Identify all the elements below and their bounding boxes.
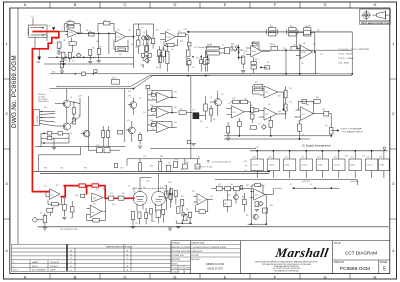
svg-text:SYSTEM: SYSTEM: [191, 255, 199, 257]
vertical feed to tube row: [190, 76, 192, 159]
resistor on IC2b output: [178, 33, 185, 37]
svg-text:220k: 220k: [168, 182, 172, 184]
svg-text:2: 2: [58, 85, 59, 87]
cathode resistor network: [131, 211, 134, 219]
svg-text:100k: 100k: [146, 180, 150, 182]
svg-text:FOOTSW: FOOTSW: [37, 115, 39, 123]
transistor Q8: [253, 214, 258, 219]
IC9 psu box: [379, 151, 390, 178]
resistor pair mid: [158, 50, 161, 57]
svg-text:C32: C32: [192, 110, 195, 112]
svg-text:47k: 47k: [127, 120, 130, 122]
svg-text:C28: C28: [244, 99, 247, 101]
junction dots mid cluster: [250, 111, 251, 112]
input jack J1: [28, 25, 47, 37]
mid coupling parts: [62, 204, 66, 210]
IC8 feedback: [252, 185, 263, 195]
svg-text:IC2: IC2: [117, 30, 120, 32]
svg-text:R69: R69: [84, 168, 87, 170]
capsule row2 x291: [291, 46, 297, 50]
svg-text:1: 1: [50, 91, 51, 93]
resistor column near Q5: [209, 109, 212, 115]
tube internal electrodes: [136, 173, 164, 199]
op-amp IC5c: [156, 122, 168, 132]
svg-text:C36: C36: [186, 162, 189, 164]
Q1 collector resistor: [72, 108, 75, 114]
svg-text:IC5: IC5: [152, 114, 155, 116]
svg-text:IC6: IC6: [367, 157, 370, 159]
svg-text:TITLE: TITLE: [334, 242, 341, 245]
node bus at 133.5: [133, 24, 135, 68]
svg-text:R15: R15: [180, 41, 183, 43]
svg-text:R74: R74: [110, 193, 113, 195]
FX send/return boxes: [206, 46, 219, 50]
grid numbers left 1-4: [5, 41, 8, 253]
OUTPUT TO POWER AMP arrow text: [336, 129, 339, 131]
svg-text:2: 2: [5, 111, 8, 116]
svg-text:C30: C30: [232, 98, 235, 100]
svg-text:10k: 10k: [250, 186, 253, 188]
IC6a output drop: [278, 92, 284, 110]
svg-text:=4558TYPE: =4558TYPE: [301, 181, 310, 183]
svg-text:+17V: +17V: [127, 95, 132, 97]
svg-text:ISSUE: ISSUE: [380, 261, 388, 264]
svg-text:ECO: ECO: [13, 270, 18, 272]
value labels top-left: [55, 20, 99, 62]
svg-text:R38: R38: [305, 26, 308, 28]
transistor Q7: [234, 195, 239, 200]
resistor R24: [242, 56, 245, 64]
svg-text:IC Supply Arrangement: IC Supply Arrangement: [302, 144, 331, 148]
notes text small: [38, 93, 49, 103]
svg-text:G: G: [323, 275, 326, 280]
svg-text:R85: R85: [270, 205, 273, 207]
feedback capacitor: [67, 25, 74, 28]
wire y135.8 to left: [224, 135, 331, 137]
svg-text:10u: 10u: [156, 67, 159, 69]
svg-text:IC7: IC7: [350, 157, 353, 159]
svg-text:470p: 470p: [68, 20, 72, 22]
resistor network left: [240, 185, 243, 189]
svg-text:IC4: IC4: [233, 112, 236, 114]
scattered value labels: [44, 26, 320, 225]
svg-text:OVERALL SIZE: OVERALL SIZE: [172, 254, 185, 257]
red stair down: [32, 32, 58, 49]
svg-text:C31: C31: [289, 102, 292, 104]
IC2 psu box: [283, 150, 295, 178]
IC3a feedback caps: [252, 42, 259, 51]
svg-text:R56: R56: [278, 111, 281, 113]
svg-text:1M: 1M: [192, 67, 195, 69]
transistor Q6: [83, 130, 90, 137]
svg-text:C: C: [124, 275, 127, 280]
svg-text:IC5: IC5: [334, 157, 337, 159]
svg-text:4558: 4558: [318, 165, 323, 167]
svg-text:+17V: +17V: [255, 147, 260, 149]
svg-text:R82: R82: [246, 185, 249, 187]
svg-text:DRAWING DATA: DRAWING DATA: [191, 242, 205, 245]
svg-text:IC3b: IC3b: [302, 52, 306, 54]
grid numbers right 1-4: [392, 41, 395, 253]
svg-text:R90: R90: [345, 156, 348, 158]
svg-text:IC2b: IC2b: [167, 37, 171, 39]
svg-text:470k: 470k: [66, 26, 70, 28]
svg-text:IC6: IC6: [198, 200, 201, 202]
wire y146.75: [35, 146, 126, 148]
svg-text:5: 5: [383, 266, 386, 272]
svg-text:H: H: [374, 275, 377, 280]
svg-text:10k: 10k: [200, 121, 203, 123]
transistor Q4 left: [128, 127, 135, 134]
wires: [248, 188, 274, 224]
svg-text:0V: 0V: [290, 184, 293, 186]
svg-text:G: G: [323, 2, 326, 7]
svg-text:TOLERANCE UNLESS OTHERWISE STA: TOLERANCE UNLESS OTHERWISE STATED: [191, 246, 227, 249]
junction dots on bus: [133, 88, 134, 89]
svg-text:1M: 1M: [65, 60, 68, 62]
resistor row: [216, 186, 222, 190]
driver op-amp IC6: [197, 194, 207, 206]
input marker arrow: [52, 27, 55, 30]
IC6a feedback capsules: [254, 84, 263, 87]
svg-text:10u: 10u: [243, 53, 246, 55]
svg-text:IC6: IC6: [265, 92, 268, 94]
op-amp IC6a: [264, 86, 278, 98]
svg-text:3: 3: [5, 181, 8, 186]
svg-text:PH/CL: PH/CL: [32, 266, 39, 268]
IC supply decoupling units: [252, 157, 382, 159]
svg-text:From STANDBY SWITCH: From STANDBY SWITCH: [342, 130, 363, 133]
svg-text:D: D: [174, 2, 177, 7]
svg-text:FINISH: FINISH: [172, 263, 178, 265]
svg-text:C8: C8: [143, 32, 145, 34]
svg-text:R12: R12: [156, 30, 159, 32]
IC7 feedback resistor: [298, 101, 313, 113]
thermal note: [207, 161, 210, 162]
capsule left of IC4: [81, 194, 85, 197]
tube V1b envelope: [152, 191, 166, 205]
op-amp IC4c: [231, 106, 244, 118]
bias parts below IC3a: [251, 61, 256, 64]
caps between: [250, 107, 254, 112]
svg-text:C1: C1: [61, 29, 63, 31]
svg-text:10k: 10k: [180, 109, 183, 111]
svg-text:IC3: IC3: [318, 157, 321, 159]
svg-text:R75: R75: [122, 193, 125, 195]
right end of top wire drops: [318, 32, 352, 74]
svg-text:C18: C18: [244, 51, 247, 53]
resistor stack right of IC2a: [137, 30, 140, 36]
svg-text:R65: R65: [175, 159, 178, 161]
svg-text:C15: C15: [205, 53, 208, 55]
multicap block (dark): [193, 112, 200, 119]
svg-text:1M: 1M: [63, 40, 66, 42]
feedback resistor: [67, 22, 74, 25]
svg-text:R44: R44: [149, 90, 152, 92]
svg-text:4k7: 4k7: [320, 54, 323, 56]
bottom rail wire: [38, 226, 389, 228]
transistor Q5: [214, 99, 221, 106]
svg-text:DATE: DATE: [185, 267, 191, 270]
svg-text:R31: R31: [252, 42, 255, 44]
small box x94: [94, 70, 97, 73]
IC8 output parts: [255, 202, 259, 207]
svg-text:TL072: TL072: [301, 165, 308, 167]
svg-text:R27: R27: [255, 59, 258, 61]
capsules x201 x207: [200, 60, 203, 64]
red feedback resistor overlay: [92, 184, 98, 187]
resistor horizontal: [265, 66, 270, 69]
input bus: [147, 86, 149, 132]
svg-text:10k: 10k: [57, 50, 60, 52]
svg-text:22k: 22k: [289, 88, 292, 90]
svg-text:1M: 1M: [52, 207, 55, 209]
coupling resistor R41 (over red): [118, 196, 124, 200]
svg-text:10k: 10k: [89, 31, 92, 33]
svg-text:R7: R7: [129, 30, 131, 32]
bus end pickup circle: [383, 147, 386, 150]
svg-text:PC8689.OGM: PC8689.OGM: [340, 266, 370, 272]
svg-text:TL072: TL072: [269, 165, 276, 167]
resistor R4 on IC1a output: [88, 33, 94, 36]
svg-text:IC8: IC8: [255, 195, 258, 197]
svg-text:IC5: IC5: [152, 129, 155, 131]
svg-text:4k7: 4k7: [62, 60, 65, 62]
svg-text:IC1: IC1: [301, 157, 304, 159]
svg-text:switchable: switchable: [274, 187, 282, 190]
svg-text:4558: 4558: [350, 165, 355, 167]
svg-text:A: A: [24, 2, 27, 7]
svg-text:4558: 4558: [285, 165, 290, 167]
mid cluster lower parts: [238, 121, 242, 126]
svg-text:680R: 680R: [63, 198, 68, 200]
IC7 upper capsule: [302, 99, 307, 103]
svg-text:10k: 10k: [325, 125, 328, 127]
svg-text:R36: R36: [290, 26, 293, 28]
transistor Q2: [63, 123, 70, 130]
svg-text:4n7: 4n7: [258, 124, 261, 126]
svg-text:AW: AW: [37, 61, 42, 64]
svg-text:B: B: [74, 275, 77, 280]
supply rail labels: [243, 161, 248, 173]
svg-text:DIMENSIONS: DIMENSIONS: [191, 251, 203, 253]
svg-text:C38: C38: [60, 168, 63, 170]
svg-text:4k7: 4k7: [267, 62, 270, 64]
svg-text:11/06/97: 11/06/97: [172, 271, 181, 273]
red op-amp output riser: [60, 186, 105, 197]
svg-text:1n5: 1n5: [180, 169, 183, 171]
svg-text:1k5: 1k5: [135, 223, 138, 225]
svg-text:G1: G1: [40, 213, 42, 215]
svg-text:DRY CONTROLS PCB: DRY CONTROLS PCB: [60, 229, 78, 231]
svg-text:Marshall: Marshall: [273, 245, 329, 260]
capsule pair row on top wire x268: [267, 28, 278, 36]
svg-text:R70: R70: [56, 185, 59, 187]
svg-text:C12: C12: [188, 48, 191, 50]
capsule R at 119: [117, 130, 122, 134]
IC1b feedback: [48, 197, 62, 204]
svg-text:IC6: IC6: [268, 104, 271, 106]
svg-text:Q5: Q5: [210, 97, 212, 99]
svg-text:C4: C4: [79, 25, 81, 27]
svg-text:VK/30.07.97Z: VK/30.07.97Z: [207, 267, 223, 271]
svg-text:R51: R51: [250, 105, 253, 107]
svg-text:C21: C21: [273, 45, 276, 47]
op-amp IC3b top right: [300, 45, 312, 59]
titleblock col1 data rows: [171, 245, 191, 274]
svg-text:1u: 1u: [302, 134, 304, 136]
svg-text:F: F: [274, 2, 277, 7]
svg-text:IC3: IC3: [313, 43, 316, 45]
svg-text:MATERIAL: MATERIAL: [172, 258, 180, 261]
svg-text:22k: 22k: [139, 98, 142, 100]
svg-text:R45: R45: [174, 92, 177, 94]
svg-text:GENERAL: GENERAL: [172, 242, 180, 245]
svg-text:Q1: Q1: [70, 97, 72, 99]
capsule pair row x303.6: [304, 28, 311, 36]
svg-text:DESIGNED AND ENGINEERED IN GRE: DESIGNED AND ENGINEERED IN GREAT BRITAIN…: [255, 261, 319, 264]
svg-text:IC4: IC4: [93, 204, 96, 206]
svg-text:47k: 47k: [70, 218, 73, 220]
aux jack circle: [33, 218, 37, 222]
mid long wires with slight jog: [50, 76, 353, 89]
titleblock outline: [171, 241, 390, 274]
ground below R1: [57, 52, 61, 54]
svg-text:P: P: [127, 270, 129, 272]
svg-text:1: 1: [392, 41, 395, 46]
svg-text:TL072: TL072: [334, 165, 341, 167]
svg-text:1k8: 1k8: [164, 185, 167, 187]
svg-text:DWG.No. PC8689.OGM: DWG.No. PC8689.OGM: [11, 55, 18, 128]
svg-text:100k: 100k: [152, 221, 156, 223]
svg-text:J3: J3: [210, 44, 212, 46]
svg-text:C37: C37: [168, 162, 171, 164]
capacitor block: [225, 47, 230, 53]
svg-text:R40: R40: [128, 91, 131, 93]
svg-text:R48: R48: [150, 120, 153, 122]
svg-text:IC1: IC1: [51, 194, 54, 196]
IC1 psu box: [300, 150, 312, 183]
junction dots column: [238, 47, 239, 48]
svg-text:Q2: Q2: [70, 133, 72, 135]
svg-text:INPUT: INPUT: [28, 28, 30, 35]
trimmer diamonds: [144, 35, 149, 40]
svg-text:47k: 47k: [99, 46, 102, 48]
svg-text:IC1,4,6,10 - TL072 / 4558TYPE: IC1,4,6,10 - TL072 / 4558TYPE: [339, 49, 370, 51]
svg-text:+17V: +17V: [183, 29, 188, 31]
svg-text:R46: R46: [150, 105, 153, 107]
svg-text:J4: J4: [222, 45, 224, 47]
svg-text:Channel (Drv): Channel (Drv): [38, 100, 49, 103]
connector pin fan wires: [40, 112, 56, 127]
svg-text:21/04/97: 21/04/97: [50, 266, 59, 268]
op-amp IC1a: [68, 29, 78, 38]
svg-text:FS1: FS1: [44, 107, 47, 109]
feedback rails: [152, 90, 172, 127]
svg-text:IC5,6 - TL072: IC5,6 - TL072: [339, 54, 353, 56]
svg-text:4n7: 4n7: [171, 49, 174, 51]
red series resistor overlay: [79, 184, 85, 187]
svg-text:C40: C40: [75, 195, 78, 197]
svg-text:J1: J1: [31, 16, 33, 18]
svg-text:2: 2: [392, 111, 395, 116]
rail y64: [44, 63, 134, 65]
tone stack density block: [141, 36, 169, 72]
svg-text:RET: RET: [209, 57, 211, 60]
svg-text:OUTPUT TO POWER AMP: OUTPUT TO POWER AMP: [340, 128, 363, 131]
op-amp IC4a: [92, 193, 104, 202]
IC2b feedback resistor: [164, 39, 178, 46]
svg-text:R54: R54: [278, 95, 281, 97]
svg-text:TL072: TL072: [367, 165, 374, 167]
red wire jack to stair: [32, 31, 59, 33]
svg-text:IC8 - 1458: IC8 - 1458: [339, 63, 350, 65]
svg-text:22k: 22k: [162, 48, 165, 50]
cap C3 above line: [98, 23, 114, 31]
capsule row2 x271: [271, 46, 277, 50]
capsule pair row x288: [287, 28, 298, 36]
anode feed resistors: [170, 189, 173, 195]
IC4b feedback: [86, 211, 105, 220]
gain select capsule below IC1a: [69, 42, 76, 45]
svg-text:E: E: [224, 2, 227, 7]
IC type notes: [339, 49, 370, 64]
svg-text:V1b: V1b: [160, 187, 163, 189]
projection caption strip: [360, 21, 391, 25]
svg-text:DATE: DATE: [50, 269, 56, 272]
decoupling cap on feed: [187, 140, 190, 144]
svg-text:E: E: [224, 275, 227, 280]
resistor to ground: [43, 215, 46, 222]
op-amp IC5a: [156, 92, 168, 102]
bias rail y57.3: [48, 56, 134, 58]
vertical capsule chain x188: [187, 43, 191, 46]
svg-text:R37: R37: [308, 26, 311, 28]
svg-text:B: B: [74, 2, 77, 7]
bias row vertical resistors: [62, 52, 65, 58]
supply lower bus: [215, 180, 357, 186]
wire top joining: [134, 24, 154, 33]
svg-text:68k: 68k: [55, 39, 58, 41]
svg-text:SW1: SW1: [231, 43, 235, 45]
tube pin wires: [137, 204, 162, 212]
svg-text:1M: 1M: [92, 48, 95, 50]
svg-text:IC3: IC3: [301, 63, 304, 65]
red drop to output node: [104, 186, 106, 199]
IC5 psu box: [333, 150, 345, 178]
step wire to rails: [39, 147, 81, 172]
coupling caps right: [186, 50, 190, 56]
footswitch connector CON1: [33, 110, 39, 125]
op-amp IC8: [254, 189, 266, 200]
svg-text:680: 680: [119, 54, 122, 56]
svg-text:UNSPECIFIED HOLE DATA: UNSPECIFIED HOLE DATA: [106, 245, 133, 248]
red run to tube grid: [104, 197, 134, 199]
svg-text:3C4: 3C4: [112, 78, 117, 80]
IC6 psu box: [365, 150, 377, 178]
svg-text:4u7: 4u7: [262, 186, 265, 188]
svg-text:4: 4: [392, 248, 395, 253]
svg-text:3: 3: [392, 181, 395, 186]
svg-text:C50: C50: [258, 186, 261, 188]
svg-text:C43: C43: [192, 191, 195, 193]
svg-text:IC2: IC2: [167, 30, 170, 32]
components row above tube: [127, 158, 200, 160]
bottom long wire right section: [206, 73, 318, 75]
svg-text:C55: C55: [362, 156, 365, 158]
svg-text:A: A: [24, 275, 27, 280]
svg-text:IC7: IC7: [302, 114, 305, 116]
